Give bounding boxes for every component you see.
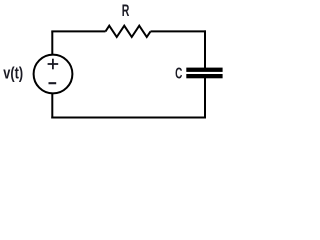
capacitor C top plate <box>186 68 222 72</box>
svg-text:v(t): v(t) <box>3 65 23 83</box>
wire top-left vertical (source top to top rail) <box>51 31 53 54</box>
wire right vertical upper (top rail to capacitor top plate) <box>204 30 206 68</box>
svg-text:R: R <box>122 1 130 20</box>
wire bottom-left vertical (bottom rail to source bottom) <box>51 94 53 119</box>
wire top rail right segment <box>151 30 207 32</box>
voltage source V1 circle <box>34 55 73 94</box>
svg-text:C: C <box>175 66 182 83</box>
resistor R zigzag <box>106 26 151 37</box>
wire top rail left segment <box>51 30 105 32</box>
wire bottom rail <box>51 117 206 119</box>
voltage source minus sign <box>49 82 57 84</box>
voltage source plus sign <box>48 59 59 70</box>
capacitor C bottom plate <box>186 74 222 78</box>
wire right vertical lower (capacitor bottom plate to bottom rail) <box>204 78 206 119</box>
